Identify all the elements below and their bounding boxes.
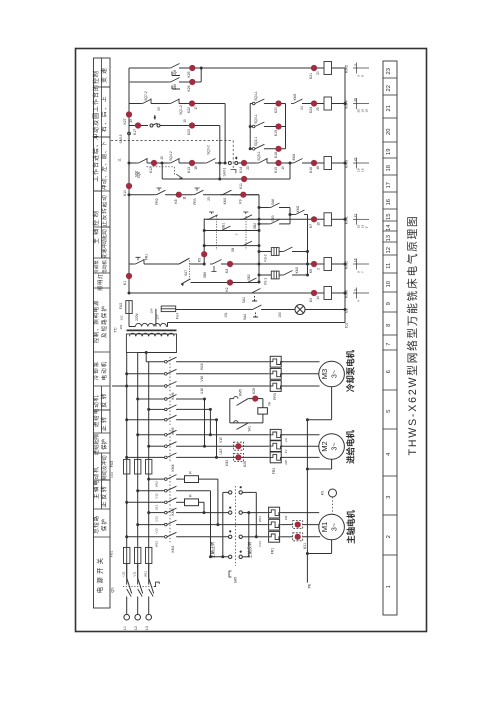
wire SA5 right side bbox=[242, 512, 248, 514]
svg-text:主轴反转: 主轴反转 bbox=[246, 542, 253, 559]
svg-text:17: 17 bbox=[353, 214, 357, 218]
coil KM1 bbox=[324, 213, 332, 226]
svg-text:KM3: KM3 bbox=[344, 159, 349, 168]
speed relay contacts KS bbox=[259, 251, 271, 253]
wire branch KM6 bbox=[129, 292, 324, 294]
svg-text:K1: K1 bbox=[123, 281, 127, 285]
svg-text:U16: U16 bbox=[200, 388, 204, 394]
thermal relay FR3 bbox=[270, 356, 281, 367]
svg-text:KM4: KM4 bbox=[171, 464, 175, 471]
svg-text:KM2: KM2 bbox=[344, 260, 349, 269]
wire branch KM2 coil bbox=[129, 263, 133, 265]
contactor KM4 main contact bbox=[163, 434, 165, 436]
svg-text:TC: TC bbox=[113, 327, 118, 332]
button SB3 bbox=[219, 230, 222, 232]
svg-text:8: 8 bbox=[386, 324, 392, 327]
svg-text:W11: W11 bbox=[144, 571, 148, 577]
svg-text:KM5: KM5 bbox=[239, 389, 243, 396]
svg-text:正反转: 正反转 bbox=[100, 485, 108, 508]
thermal relay FR1 bbox=[269, 507, 280, 518]
wire rows KM5 group bbox=[138, 398, 163, 400]
switch SA1 bbox=[249, 292, 252, 294]
svg-text:KM1: KM1 bbox=[344, 215, 349, 224]
contact SB5 bbox=[259, 223, 268, 225]
svg-text:2W: 2W bbox=[284, 460, 288, 465]
svg-text:主轴控制: 主轴控制 bbox=[92, 208, 100, 244]
svg-text:18: 18 bbox=[316, 166, 320, 170]
svg-text:20: 20 bbox=[246, 166, 250, 170]
svg-text:K12: K12 bbox=[149, 167, 153, 173]
svg-text:101: 101 bbox=[224, 312, 228, 318]
svg-text:FR1: FR1 bbox=[145, 254, 149, 260]
svg-text:16: 16 bbox=[194, 166, 198, 170]
node K1 bbox=[126, 273, 132, 279]
wire parallel branch bbox=[129, 81, 168, 83]
svg-text:进给电机: 进给电机 bbox=[346, 430, 356, 464]
svg-text:W16: W16 bbox=[200, 363, 204, 370]
wire rows to M3 bbox=[145, 353, 147, 362]
svg-text:SQ3-1: SQ3-1 bbox=[254, 114, 258, 124]
svg-text:反转: 反转 bbox=[100, 391, 108, 407]
svg-text:K23: K23 bbox=[187, 129, 191, 135]
outer border frame bbox=[76, 49, 427, 632]
svg-text:U14: U14 bbox=[258, 541, 262, 547]
selector SA3-3 bbox=[150, 124, 153, 127]
svg-text:U12: U12 bbox=[155, 504, 159, 510]
svg-text:7: 7 bbox=[235, 233, 239, 235]
svg-text:主轴正转: 主轴正转 bbox=[209, 542, 216, 559]
wire SA5 left jumper bbox=[223, 491, 229, 493]
wire: control right rail bbox=[344, 68, 346, 323]
svg-text:SQ5-1: SQ5-1 bbox=[257, 151, 261, 161]
svg-text:KM6: KM6 bbox=[344, 289, 349, 298]
contactor KM2 main contact bbox=[163, 478, 165, 480]
svg-text:4: 4 bbox=[356, 300, 360, 302]
svg-text:16: 16 bbox=[386, 199, 392, 205]
svg-text:右、后、上: 右、后、上 bbox=[100, 95, 108, 132]
fuse FU4 bbox=[161, 306, 176, 312]
svg-text:K19: K19 bbox=[274, 130, 278, 136]
svg-text:SB: SB bbox=[231, 248, 235, 252]
svg-text:SA4: SA4 bbox=[243, 314, 247, 320]
lamp EL bbox=[295, 305, 305, 315]
reversing switch SA5 bbox=[229, 491, 232, 494]
wire run rows into SA5 bbox=[177, 512, 229, 514]
mechanical link dashed SA3 bbox=[111, 140, 233, 142]
svg-text:YA1: YA1 bbox=[248, 426, 252, 432]
svg-text:7: 7 bbox=[360, 271, 364, 273]
svg-text:冷却泵电机: 冷却泵电机 bbox=[346, 349, 356, 391]
svg-text:8: 8 bbox=[360, 75, 364, 77]
contact SA6 bbox=[259, 207, 268, 209]
node K13 bbox=[189, 160, 195, 166]
svg-text:PE: PE bbox=[308, 583, 312, 588]
svg-text:12: 12 bbox=[386, 247, 392, 253]
svg-text:10: 10 bbox=[386, 281, 392, 287]
svg-text:25: 25 bbox=[316, 107, 320, 111]
svg-text:U13: U13 bbox=[155, 516, 159, 522]
svg-text:FR3: FR3 bbox=[193, 198, 197, 204]
svg-text:W12: W12 bbox=[155, 481, 159, 488]
contact KM5 aux bbox=[237, 399, 249, 406]
svg-text:K31: K31 bbox=[303, 543, 307, 549]
contactor KM6 main contact bbox=[163, 361, 165, 363]
svg-text:V15: V15 bbox=[219, 437, 223, 443]
svg-text:QS: QS bbox=[111, 587, 115, 593]
svg-text:L2: L2 bbox=[134, 626, 138, 630]
transformer TC secondary winding bbox=[128, 314, 130, 327]
node K6 bbox=[311, 261, 317, 267]
svg-text:L3: L3 bbox=[145, 626, 149, 630]
svg-text:冷却泵: 冷却泵 bbox=[93, 260, 100, 274]
svg-text:SA5: SA5 bbox=[234, 577, 238, 584]
svg-text:及短路保护: 及短路保护 bbox=[100, 305, 108, 338]
svg-text:K29: K29 bbox=[252, 388, 256, 394]
switch SQ5-1 bbox=[256, 162, 259, 164]
svg-text:K6: K6 bbox=[309, 269, 313, 273]
contactor KM1 main contact bbox=[163, 512, 165, 514]
coil KM3 bbox=[324, 157, 332, 170]
svg-text:15: 15 bbox=[353, 258, 357, 262]
svg-text:THWS-X62W型网络型万能铣床电气原理图: THWS-X62W型网络型万能铣床电气原理图 bbox=[406, 215, 419, 456]
thermal contact FR3 bbox=[192, 194, 195, 196]
cross-ref KM5 bbox=[353, 67, 369, 69]
node K23 bbox=[189, 122, 195, 128]
svg-text:K25: K25 bbox=[187, 71, 191, 77]
svg-text:127: 127 bbox=[156, 314, 160, 319]
switch SQ6-1 dashed link bbox=[147, 166, 175, 168]
fuses FU1 bbox=[124, 547, 130, 563]
contactor KM5 main contact bbox=[163, 398, 165, 400]
fuse FU2 on rail bbox=[126, 301, 132, 314]
svg-text:进给超限: 进给超限 bbox=[92, 433, 100, 455]
svg-text:21: 21 bbox=[386, 105, 392, 111]
wire branch KM3 bbox=[129, 162, 136, 164]
node K21 bbox=[311, 65, 317, 71]
wire crossover to feed rows bbox=[204, 399, 206, 446]
node K4 bbox=[227, 261, 233, 267]
svg-text:24: 24 bbox=[300, 106, 304, 110]
svg-text:K4: K4 bbox=[225, 269, 229, 273]
svg-text:23: 23 bbox=[157, 107, 161, 111]
svg-text:FU4: FU4 bbox=[176, 313, 180, 319]
wire drop at 225 bbox=[224, 104, 226, 164]
svg-text:K24: K24 bbox=[309, 107, 313, 113]
contact KM4 interlock bbox=[291, 162, 294, 164]
svg-text:KM1: KM1 bbox=[295, 266, 299, 273]
svg-text:SQ1-2: SQ1-2 bbox=[179, 105, 183, 115]
svg-text:KM4: KM4 bbox=[344, 100, 349, 109]
node K25 bbox=[189, 65, 195, 71]
contact SQ3-1 bbox=[251, 126, 253, 128]
transformer TC primary winding bbox=[126, 334, 176, 353]
switch SQ6-2 bbox=[136, 162, 139, 164]
cross-ref KM1 bbox=[353, 218, 369, 220]
svg-text:9: 9 bbox=[386, 302, 392, 305]
svg-text:21: 21 bbox=[353, 157, 357, 161]
function label strip (left) bbox=[94, 58, 111, 608]
power switch QS bbox=[126, 564, 128, 579]
svg-text:1W: 1W bbox=[284, 516, 288, 521]
svg-text:SQ6: SQ6 bbox=[137, 172, 141, 179]
svg-text:制动及冲动: 制动及冲动 bbox=[101, 455, 108, 480]
svg-text:FR1: FR1 bbox=[271, 548, 275, 555]
svg-text:SA7: SA7 bbox=[184, 270, 188, 276]
svg-text:SB6: SB6 bbox=[203, 272, 207, 278]
svg-text:220V: 220V bbox=[135, 312, 139, 321]
plug connectors X27/X28 bbox=[234, 442, 244, 450]
svg-text:3~: 3~ bbox=[329, 370, 338, 378]
contact SB5 bbox=[268, 223, 271, 225]
contact SQ3-2 bbox=[204, 162, 207, 164]
wire secondary right end to 101 bbox=[167, 323, 169, 327]
svg-text:281: 281 bbox=[119, 324, 123, 329]
svg-text:SA3-1: SA3-1 bbox=[223, 167, 227, 176]
coil KM6 bbox=[324, 287, 332, 300]
svg-text:2V: 2V bbox=[284, 450, 288, 454]
svg-text:SB2: SB2 bbox=[247, 274, 251, 280]
cross-ref KM2 bbox=[353, 263, 369, 265]
svg-text:K20: K20 bbox=[274, 107, 278, 113]
node K11 bbox=[241, 176, 247, 182]
fuses FU3 bbox=[124, 459, 130, 474]
cross-ref KM6 bbox=[353, 292, 369, 294]
svg-text:K5: K5 bbox=[198, 258, 202, 262]
svg-text:18: 18 bbox=[386, 165, 392, 171]
svg-text:4: 4 bbox=[353, 64, 357, 66]
motor M3 cooling pump bbox=[319, 361, 345, 387]
svg-text:正转: 正转 bbox=[100, 415, 108, 431]
svg-text:K28: K28 bbox=[243, 461, 247, 467]
svg-text:冷却泵: 冷却泵 bbox=[92, 361, 100, 381]
speed relay KS bbox=[329, 489, 337, 497]
svg-text:K7: K7 bbox=[309, 224, 313, 228]
svg-text:SQ4-1: SQ4-1 bbox=[254, 91, 258, 101]
svg-text:U15: U15 bbox=[219, 448, 223, 454]
electromagnet YA1 bbox=[262, 399, 264, 408]
svg-text:SQ3-2: SQ3-2 bbox=[207, 145, 211, 155]
column number strip (right) bbox=[383, 61, 397, 615]
svg-text:11: 11 bbox=[118, 158, 122, 162]
wire 127V tap bbox=[155, 309, 157, 327]
node K26 bbox=[189, 79, 195, 85]
cross-ref KM4 bbox=[353, 103, 369, 105]
contact KM5 aux 2 bbox=[234, 421, 238, 423]
button SB2 bbox=[241, 218, 244, 220]
svg-text:FR2: FR2 bbox=[272, 468, 276, 475]
svg-text:15: 15 bbox=[360, 168, 364, 172]
svg-text:K14: K14 bbox=[239, 167, 243, 173]
node K20 bbox=[275, 100, 281, 106]
svg-text:23: 23 bbox=[386, 68, 392, 74]
svg-text:11: 11 bbox=[386, 263, 392, 269]
node K24 bbox=[311, 100, 317, 106]
svg-text:22: 22 bbox=[386, 85, 392, 91]
button SB6 bbox=[210, 263, 213, 265]
svg-text:KM5: KM5 bbox=[344, 64, 349, 73]
svg-text:保护: 保护 bbox=[100, 439, 108, 450]
svg-text:6: 6 bbox=[386, 370, 392, 373]
svg-text:V13: V13 bbox=[155, 528, 159, 534]
svg-text:FU3: FU3 bbox=[110, 461, 114, 468]
svg-text:M1: M1 bbox=[320, 522, 329, 533]
svg-text:M3: M3 bbox=[320, 369, 329, 380]
node K5 bbox=[201, 251, 207, 257]
svg-text:FR2: FR2 bbox=[155, 198, 159, 204]
svg-text:15: 15 bbox=[183, 119, 187, 123]
contact SQ6 bbox=[168, 67, 171, 69]
svg-text:主轴电机: 主轴电机 bbox=[346, 510, 356, 544]
braking resistor R bbox=[177, 501, 185, 503]
svg-text:K22: K22 bbox=[187, 107, 191, 113]
fast traverse electromagnet branch bbox=[230, 398, 234, 400]
svg-text:2: 2 bbox=[386, 535, 392, 538]
braking resistor R bbox=[177, 478, 185, 480]
svg-text:KM2: KM2 bbox=[296, 205, 300, 212]
node K22 bbox=[189, 100, 195, 106]
svg-text:K10: K10 bbox=[123, 190, 127, 196]
wire drop at 219.8 bbox=[219, 126, 221, 180]
svg-text:W15: W15 bbox=[225, 460, 229, 467]
svg-text:SB6: SB6 bbox=[173, 84, 177, 90]
svg-text:V11: V11 bbox=[133, 571, 137, 576]
svg-text:SB1: SB1 bbox=[222, 223, 226, 229]
svg-text:15: 15 bbox=[365, 109, 369, 113]
svg-text:SA1: SA1 bbox=[242, 297, 246, 303]
contact SB7 bbox=[245, 282, 248, 284]
contact KM3 interlock bbox=[291, 103, 294, 105]
wire lighting branch bbox=[176, 309, 250, 311]
limit switch SQ7-2 bbox=[140, 103, 143, 105]
svg-text:W14: W14 bbox=[258, 516, 262, 523]
node K8 bbox=[176, 192, 182, 198]
node K30 bbox=[235, 443, 241, 449]
svg-text:2U: 2U bbox=[284, 438, 288, 442]
cross-ref KM3 bbox=[353, 162, 369, 164]
svg-text:K11: K11 bbox=[239, 183, 243, 189]
svg-text:3~: 3~ bbox=[329, 523, 338, 531]
wire rows KM2 braking group bbox=[149, 478, 163, 480]
svg-text:101: 101 bbox=[345, 323, 349, 329]
svg-text:K16: K16 bbox=[309, 167, 313, 173]
start button SB3 branch bbox=[204, 230, 259, 232]
wire crossover braking to run bbox=[217, 479, 219, 524]
svg-text:K9: K9 bbox=[239, 199, 243, 203]
wire M2 to PE bbox=[331, 460, 333, 470]
node K3 bbox=[311, 290, 317, 296]
contact SA6 bbox=[268, 207, 271, 209]
svg-text:冲动、左、前、下: 冲动、左、前、下 bbox=[100, 141, 108, 191]
svg-text:U11: U11 bbox=[122, 571, 126, 577]
svg-text:14: 14 bbox=[316, 296, 320, 300]
svg-text:SB2: SB2 bbox=[253, 223, 257, 229]
svg-text:SQ4-2: SQ4-2 bbox=[169, 151, 173, 161]
node K19 bbox=[275, 123, 281, 129]
node K31 bbox=[295, 522, 301, 528]
svg-text:15: 15 bbox=[386, 214, 392, 220]
svg-text:17: 17 bbox=[386, 182, 392, 188]
svg-text:工作台进给、冲动及圆工作台的控制: 工作台进给、冲动及圆工作台的控制 bbox=[92, 70, 100, 182]
contact SB6 bbox=[168, 81, 171, 83]
limit switch SQ1-2 bbox=[168, 103, 171, 105]
svg-text:电动机: 电动机 bbox=[101, 260, 108, 274]
svg-text:103: 103 bbox=[278, 312, 282, 318]
node K29 bbox=[252, 396, 258, 402]
svg-text:SQ2-1: SQ2-1 bbox=[254, 136, 258, 146]
svg-text:28: 28 bbox=[353, 98, 357, 102]
svg-text:进给电动机: 进给电动机 bbox=[92, 395, 100, 427]
svg-text:17: 17 bbox=[194, 106, 198, 110]
svg-text:SQ7-2: SQ7-2 bbox=[144, 91, 148, 101]
wire M1 to PE bbox=[331, 540, 333, 554]
svg-text:162: 162 bbox=[120, 315, 124, 320]
button SB4 bbox=[241, 245, 244, 247]
svg-text:KM4: KM4 bbox=[292, 153, 296, 160]
svg-text:23: 23 bbox=[207, 197, 211, 201]
thermal contact FR1 bbox=[133, 263, 136, 265]
svg-text:1: 1 bbox=[386, 585, 392, 588]
node K16 bbox=[311, 160, 317, 166]
svg-text:3~: 3~ bbox=[329, 442, 338, 450]
svg-text:控制、照明电源: 控制、照明电源 bbox=[92, 300, 100, 343]
coil KM2 bbox=[324, 258, 332, 271]
supply terminals L1 L2 L3 bbox=[126, 597, 128, 615]
svg-text:FU2: FU2 bbox=[119, 303, 123, 310]
thermal contact FR2 bbox=[154, 194, 157, 196]
svg-text:U14: U14 bbox=[110, 472, 114, 478]
svg-text:KS: KS bbox=[321, 490, 325, 495]
svg-text:K13: K13 bbox=[187, 167, 191, 173]
svg-text:K15: K15 bbox=[274, 167, 278, 173]
svg-text:5: 5 bbox=[365, 226, 369, 228]
contact KM2 interlock bbox=[293, 214, 296, 216]
motor M2 feed motor bbox=[319, 434, 345, 460]
svg-text:21: 21 bbox=[316, 71, 320, 75]
svg-text:总短路: 总短路 bbox=[92, 515, 100, 534]
svg-text:V12: V12 bbox=[155, 493, 159, 499]
wire phase bus L2 bbox=[137, 353, 139, 585]
contact SQ4-1 bbox=[251, 103, 253, 105]
svg-text:M2: M2 bbox=[320, 441, 329, 452]
svg-text:K8: K8 bbox=[174, 199, 178, 203]
stop buttons chain bbox=[204, 218, 324, 220]
svg-text:13: 13 bbox=[386, 235, 392, 241]
svg-text:SA3-3: SA3-3 bbox=[119, 134, 123, 143]
contact KM1 seal bbox=[220, 194, 223, 196]
wire branch FR contacts bbox=[128, 193, 131, 196]
svg-text:电源开关: 电源开关 bbox=[95, 555, 104, 593]
plug connectors spindle bbox=[293, 521, 303, 529]
svg-text:K3: K3 bbox=[309, 298, 313, 302]
node K7 bbox=[311, 216, 317, 222]
wire phase bus L1 bbox=[126, 353, 128, 585]
terminal SA3 bbox=[128, 132, 131, 135]
wire branch KM5 (fast feed) bbox=[129, 67, 168, 69]
svg-text:正反转起动: 正反转起动 bbox=[100, 195, 108, 227]
svg-text:电动机: 电动机 bbox=[100, 361, 108, 381]
svg-text:V16: V16 bbox=[200, 376, 204, 382]
wire 101 return bbox=[168, 322, 346, 324]
contact KM1 interlock bbox=[281, 274, 284, 276]
wire rows to M2 bbox=[138, 434, 163, 436]
node K27 bbox=[126, 111, 132, 117]
switch SA7 blade bbox=[179, 258, 190, 264]
thermal relay FR2 bbox=[270, 429, 281, 440]
start button SB4 branch bbox=[204, 245, 259, 247]
junction bbox=[344, 102, 347, 105]
svg-text:104: 104 bbox=[149, 308, 153, 313]
wire: control left rail bbox=[128, 68, 130, 293]
